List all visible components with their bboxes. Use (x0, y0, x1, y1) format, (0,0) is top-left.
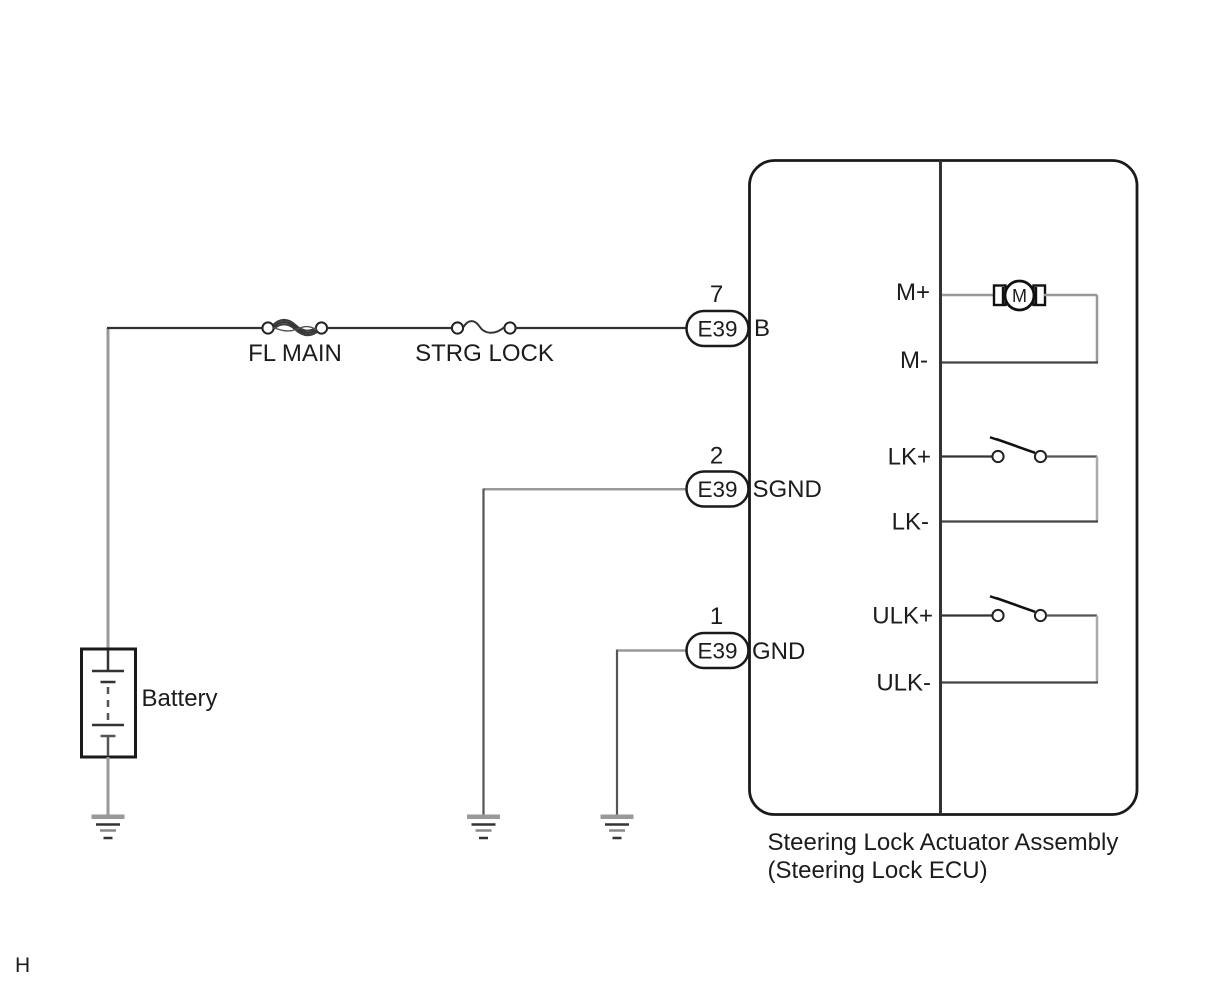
svg-text:1: 1 (710, 603, 723, 630)
wire battery positive vertical (107, 328, 110, 651)
wire LK- (942, 520, 1098, 522)
svg-text:M+: M+ (896, 279, 930, 306)
svg-text:M: M (1012, 286, 1027, 306)
ground SGND (467, 815, 500, 839)
ground battery (92, 815, 125, 839)
connector E39 pin SGND (687, 472, 749, 507)
wire GND horizontal (618, 649, 688, 652)
svg-text:(Steering Lock ECU): (Steering Lock ECU) (768, 857, 988, 884)
wire LK+ (942, 455, 993, 457)
wire ULK loop vertical (1096, 616, 1099, 683)
motor M (994, 281, 1045, 310)
svg-text:LK-: LK- (892, 509, 929, 536)
wire LK loop vertical (1096, 457, 1099, 522)
svg-text:ULK-: ULK- (876, 670, 931, 697)
svg-text:Battery: Battery (142, 685, 218, 712)
svg-text:7: 7 (710, 281, 723, 308)
ground GND (601, 815, 634, 839)
connector E39 pin B (687, 311, 749, 346)
svg-text:GND: GND (752, 638, 805, 665)
wire ULK+ right (1047, 614, 1098, 616)
svg-text:FL MAIN: FL MAIN (248, 340, 342, 367)
wire battery negative vertical (107, 757, 110, 815)
wire motor right (1044, 294, 1097, 297)
wire top horizontal segment 2 (327, 327, 452, 329)
wire GND vertical drop (616, 650, 618, 815)
connector E39 pin GND (687, 633, 749, 668)
wire M- (942, 361, 1098, 363)
wire SGND vertical drop (482, 489, 484, 815)
fusible link FL MAIN (262, 320, 327, 335)
ECU box Steering Lock Actuator Assembly (750, 161, 1138, 815)
ECU internal divider (939, 161, 942, 815)
svg-text:E39: E39 (697, 317, 737, 342)
wire ULK+ (942, 614, 993, 616)
svg-text:Steering Lock Actuator Assembl: Steering Lock Actuator Assembly (768, 829, 1119, 856)
svg-text:M-: M- (900, 347, 928, 374)
wire LK+ right (1047, 455, 1098, 457)
battery (82, 649, 136, 757)
switch unlock position (990, 596, 1046, 621)
wire M+ (942, 294, 995, 297)
svg-text:ULK+: ULK+ (872, 603, 933, 630)
wire motor loop vertical (1096, 295, 1099, 363)
wire SGND horizontal (484, 488, 687, 491)
svg-text:2: 2 (710, 443, 723, 470)
svg-text:LK+: LK+ (888, 444, 931, 471)
svg-text:SGND: SGND (753, 476, 822, 503)
svg-text:E39: E39 (697, 639, 737, 664)
svg-text:B: B (754, 315, 770, 342)
wire top horizontal segment 3 (516, 327, 688, 329)
wire ULK- (942, 681, 1098, 683)
wire top horizontal segment 1 (107, 327, 263, 329)
svg-text:STRG LOCK: STRG LOCK (415, 340, 554, 367)
switch lock position (990, 437, 1046, 462)
fuse STRG LOCK (452, 321, 516, 333)
svg-text:E39: E39 (697, 477, 737, 502)
svg-text:H: H (15, 954, 30, 977)
